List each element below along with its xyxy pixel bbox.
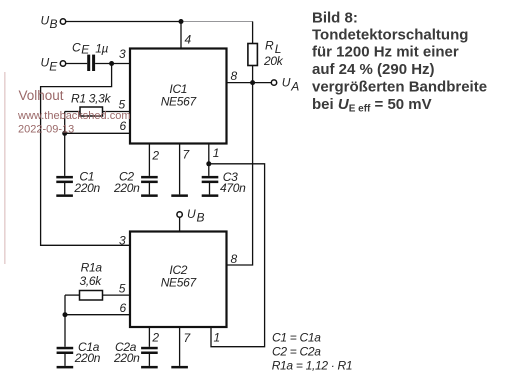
resistor R1 (65, 91, 130, 116)
svg-text:1: 1 (214, 331, 221, 345)
svg-text:bei UE eff = 50 mV: bei UE eff = 50 mV (312, 96, 432, 115)
ground C1a (57, 366, 74, 369)
svg-text:A: A (290, 80, 299, 94)
ground C2 (141, 194, 158, 197)
wire UE to CE (66, 63, 88, 65)
svg-text:8: 8 (231, 69, 238, 83)
svg-text:6: 6 (120, 301, 127, 315)
svg-text:B: B (197, 211, 205, 225)
svg-text:U: U (41, 13, 50, 27)
svg-text:R: R (265, 38, 274, 52)
terminal UB (41, 13, 66, 31)
wire pin 1 to C3 (208, 144, 210, 176)
svg-text:für 1200 Hz mit einer: für 1200 Hz mit einer (312, 44, 459, 61)
resistor R1a (65, 260, 130, 300)
ground C1 (56, 194, 73, 197)
wire pin 4 (180, 22, 182, 49)
capacitor C3 (202, 170, 246, 195)
wire pin 2 to C2 (148, 144, 150, 176)
junction input node (109, 61, 114, 66)
wire output node to UA (253, 82, 272, 84)
svg-text:220n: 220n (73, 181, 100, 195)
svg-text:vergrößerten Bandbreite: vergrößerten Bandbreite (312, 79, 487, 96)
title Bild 8 (312, 10, 487, 115)
junction output node (250, 80, 255, 85)
svg-text:220n: 220n (113, 181, 140, 195)
svg-text:auf 24 % (290 Hz): auf 24 % (290 Hz) (312, 61, 435, 78)
wire node to C1a (64, 315, 66, 347)
svg-text:U: U (187, 207, 196, 221)
wire UB to IC2 pin 4 (179, 217, 181, 232)
ground pin7 IC1 (171, 194, 188, 197)
watermark edge streak (4, 72, 6, 264)
svg-text:3,6k: 3,6k (80, 274, 103, 288)
wire pin 6 (IC1) (65, 132, 130, 134)
junction timing node (IC2) (63, 312, 68, 317)
wire pin 7 ground (IC1) (179, 144, 181, 195)
svg-text:5: 5 (119, 282, 126, 296)
svg-text:2022-09-13: 2022-09-13 (18, 124, 74, 136)
wire UB rail (66, 21, 182, 23)
terminal UE (41, 55, 66, 73)
wire R1a to pin6 node (IC2) (64, 295, 66, 315)
svg-text:NE567: NE567 (161, 275, 198, 289)
junction loop filter node (206, 161, 211, 166)
terminal UB (IC2) (177, 207, 205, 225)
svg-text:1: 1 (213, 146, 220, 160)
svg-text:220n: 220n (113, 351, 140, 365)
capacitor C2a (113, 340, 158, 366)
svg-text:U: U (41, 55, 50, 69)
ground C3 (202, 194, 219, 197)
svg-text:C: C (72, 41, 81, 55)
resistor RL (248, 22, 284, 83)
svg-text:2: 2 (151, 331, 159, 345)
wire CE to pin 3 (95, 63, 130, 65)
svg-text:B: B (50, 17, 58, 31)
wire node to C1 (64, 133, 66, 176)
svg-text:E: E (81, 43, 90, 57)
svg-text:4: 4 (185, 33, 192, 47)
capacitor CE (72, 41, 109, 72)
svg-text:C1 = C1a: C1 = C1a (272, 330, 321, 344)
wire feedback pin1 IC1 to pin1 IC2 (209, 164, 265, 347)
wire pin 6 (IC2) (65, 314, 130, 316)
capacitor C1 (56, 170, 100, 196)
svg-text:220n: 220n (74, 351, 101, 365)
wire pin 2 to C2a (148, 327, 150, 347)
terminal UA (271, 76, 299, 94)
svg-text:www.thebackshed.com: www.thebackshed.com (17, 110, 131, 122)
wire R1 to pin6 node (64, 112, 66, 134)
svg-text:E: E (49, 60, 58, 74)
svg-text:1µ: 1µ (95, 41, 108, 55)
svg-text:20k: 20k (263, 54, 284, 68)
wire input node to IC2 pin 3 (41, 64, 130, 246)
svg-text:2: 2 (151, 148, 159, 162)
svg-text:R1a: R1a (81, 260, 103, 274)
ground pin7 IC2 (171, 366, 188, 369)
svg-text:8: 8 (231, 252, 238, 266)
svg-text:Tondetektorschaltung: Tondetektorschaltung (312, 26, 468, 43)
wire output bus to IC2 pin 8 (227, 83, 253, 265)
svg-text:Volhout: Volhout (19, 88, 64, 103)
ground C2a (141, 366, 158, 369)
svg-text:3: 3 (119, 233, 126, 247)
svg-text:3: 3 (119, 47, 126, 61)
wire pin 8 (IC1) (227, 82, 253, 84)
svg-text:470n: 470n (220, 181, 246, 195)
junction supply node (179, 19, 184, 24)
svg-text:U: U (282, 76, 291, 90)
op-amp IC2 NE567 (130, 232, 227, 328)
capacitor C1a (57, 340, 101, 366)
svg-text:C2 = C2a: C2 = C2a (272, 344, 321, 358)
svg-text:NE567: NE567 (161, 95, 198, 109)
junction timing node (62, 131, 67, 136)
wire pin 7 ground (IC2) (179, 327, 181, 366)
svg-text:Bild 8:: Bild 8: (312, 10, 358, 27)
svg-text:R1a = 1,12 · R1: R1a = 1,12 · R1 (272, 358, 353, 372)
svg-text:R1 3,3k: R1 3,3k (71, 91, 112, 105)
op-amp IC1 NE567 (130, 49, 227, 144)
capacitor C2 (113, 170, 158, 196)
